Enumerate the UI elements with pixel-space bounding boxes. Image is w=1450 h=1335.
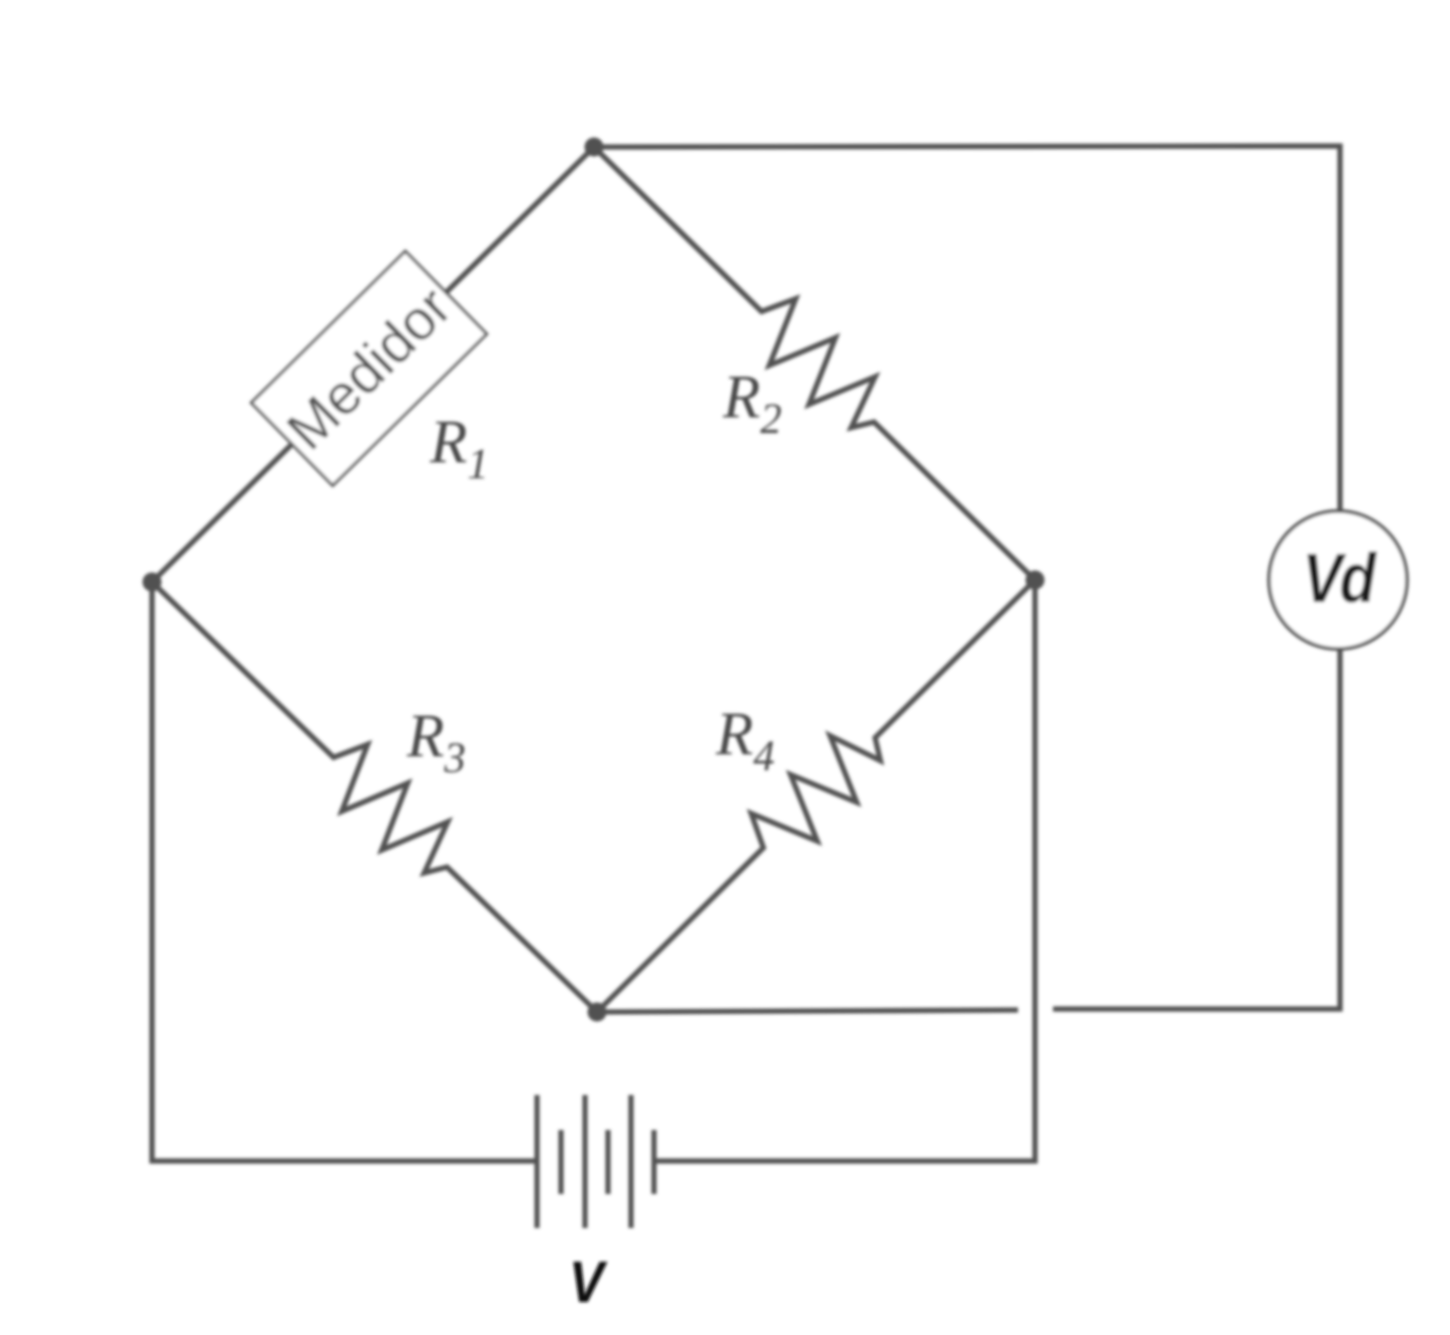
resistor R2 (top node to right node): [594, 147, 1035, 580]
wire: left node to meter box: [152, 445, 292, 583]
svg-text:R4: R4: [715, 701, 775, 780]
svg-text:R2: R2: [722, 364, 782, 443]
node dot top: [585, 138, 604, 157]
battery long plate 3: [628, 1095, 633, 1228]
battery long plate 1: [534, 1095, 539, 1228]
wire: bottom rail left of crossing to bottom node: [597, 1010, 1018, 1012]
node dot bottom: [588, 1003, 607, 1022]
node dot right: [1026, 571, 1045, 590]
svg-text:V: V: [569, 1249, 608, 1314]
wire: meter box to top node: [447, 147, 595, 292]
resistor R3 (left node to bottom node): [152, 582, 597, 1012]
wire: top rail to voltmeter: [594, 146, 1340, 512]
meter box (Medidor): [251, 251, 486, 485]
svg-text:Vd: Vd: [1303, 538, 1378, 617]
battery V: [537, 1095, 654, 1228]
battery short plate 3: [651, 1130, 656, 1194]
wire: voltmeter to bottom rail: [1053, 649, 1340, 1009]
node dot left: [143, 573, 162, 592]
wire: right node down and to battery -: [656, 580, 1035, 1161]
battery short plate 1: [558, 1130, 563, 1194]
resistor R4 (bottom node to right node): [597, 580, 1035, 1012]
battery short plate 2: [605, 1130, 610, 1194]
battery long plate 2: [582, 1095, 587, 1228]
svg-text:R1: R1: [429, 409, 489, 488]
voltmeter Vd circle: [1269, 511, 1407, 649]
wire: left node down and to battery +: [152, 582, 535, 1161]
svg-text:R3: R3: [406, 703, 466, 782]
